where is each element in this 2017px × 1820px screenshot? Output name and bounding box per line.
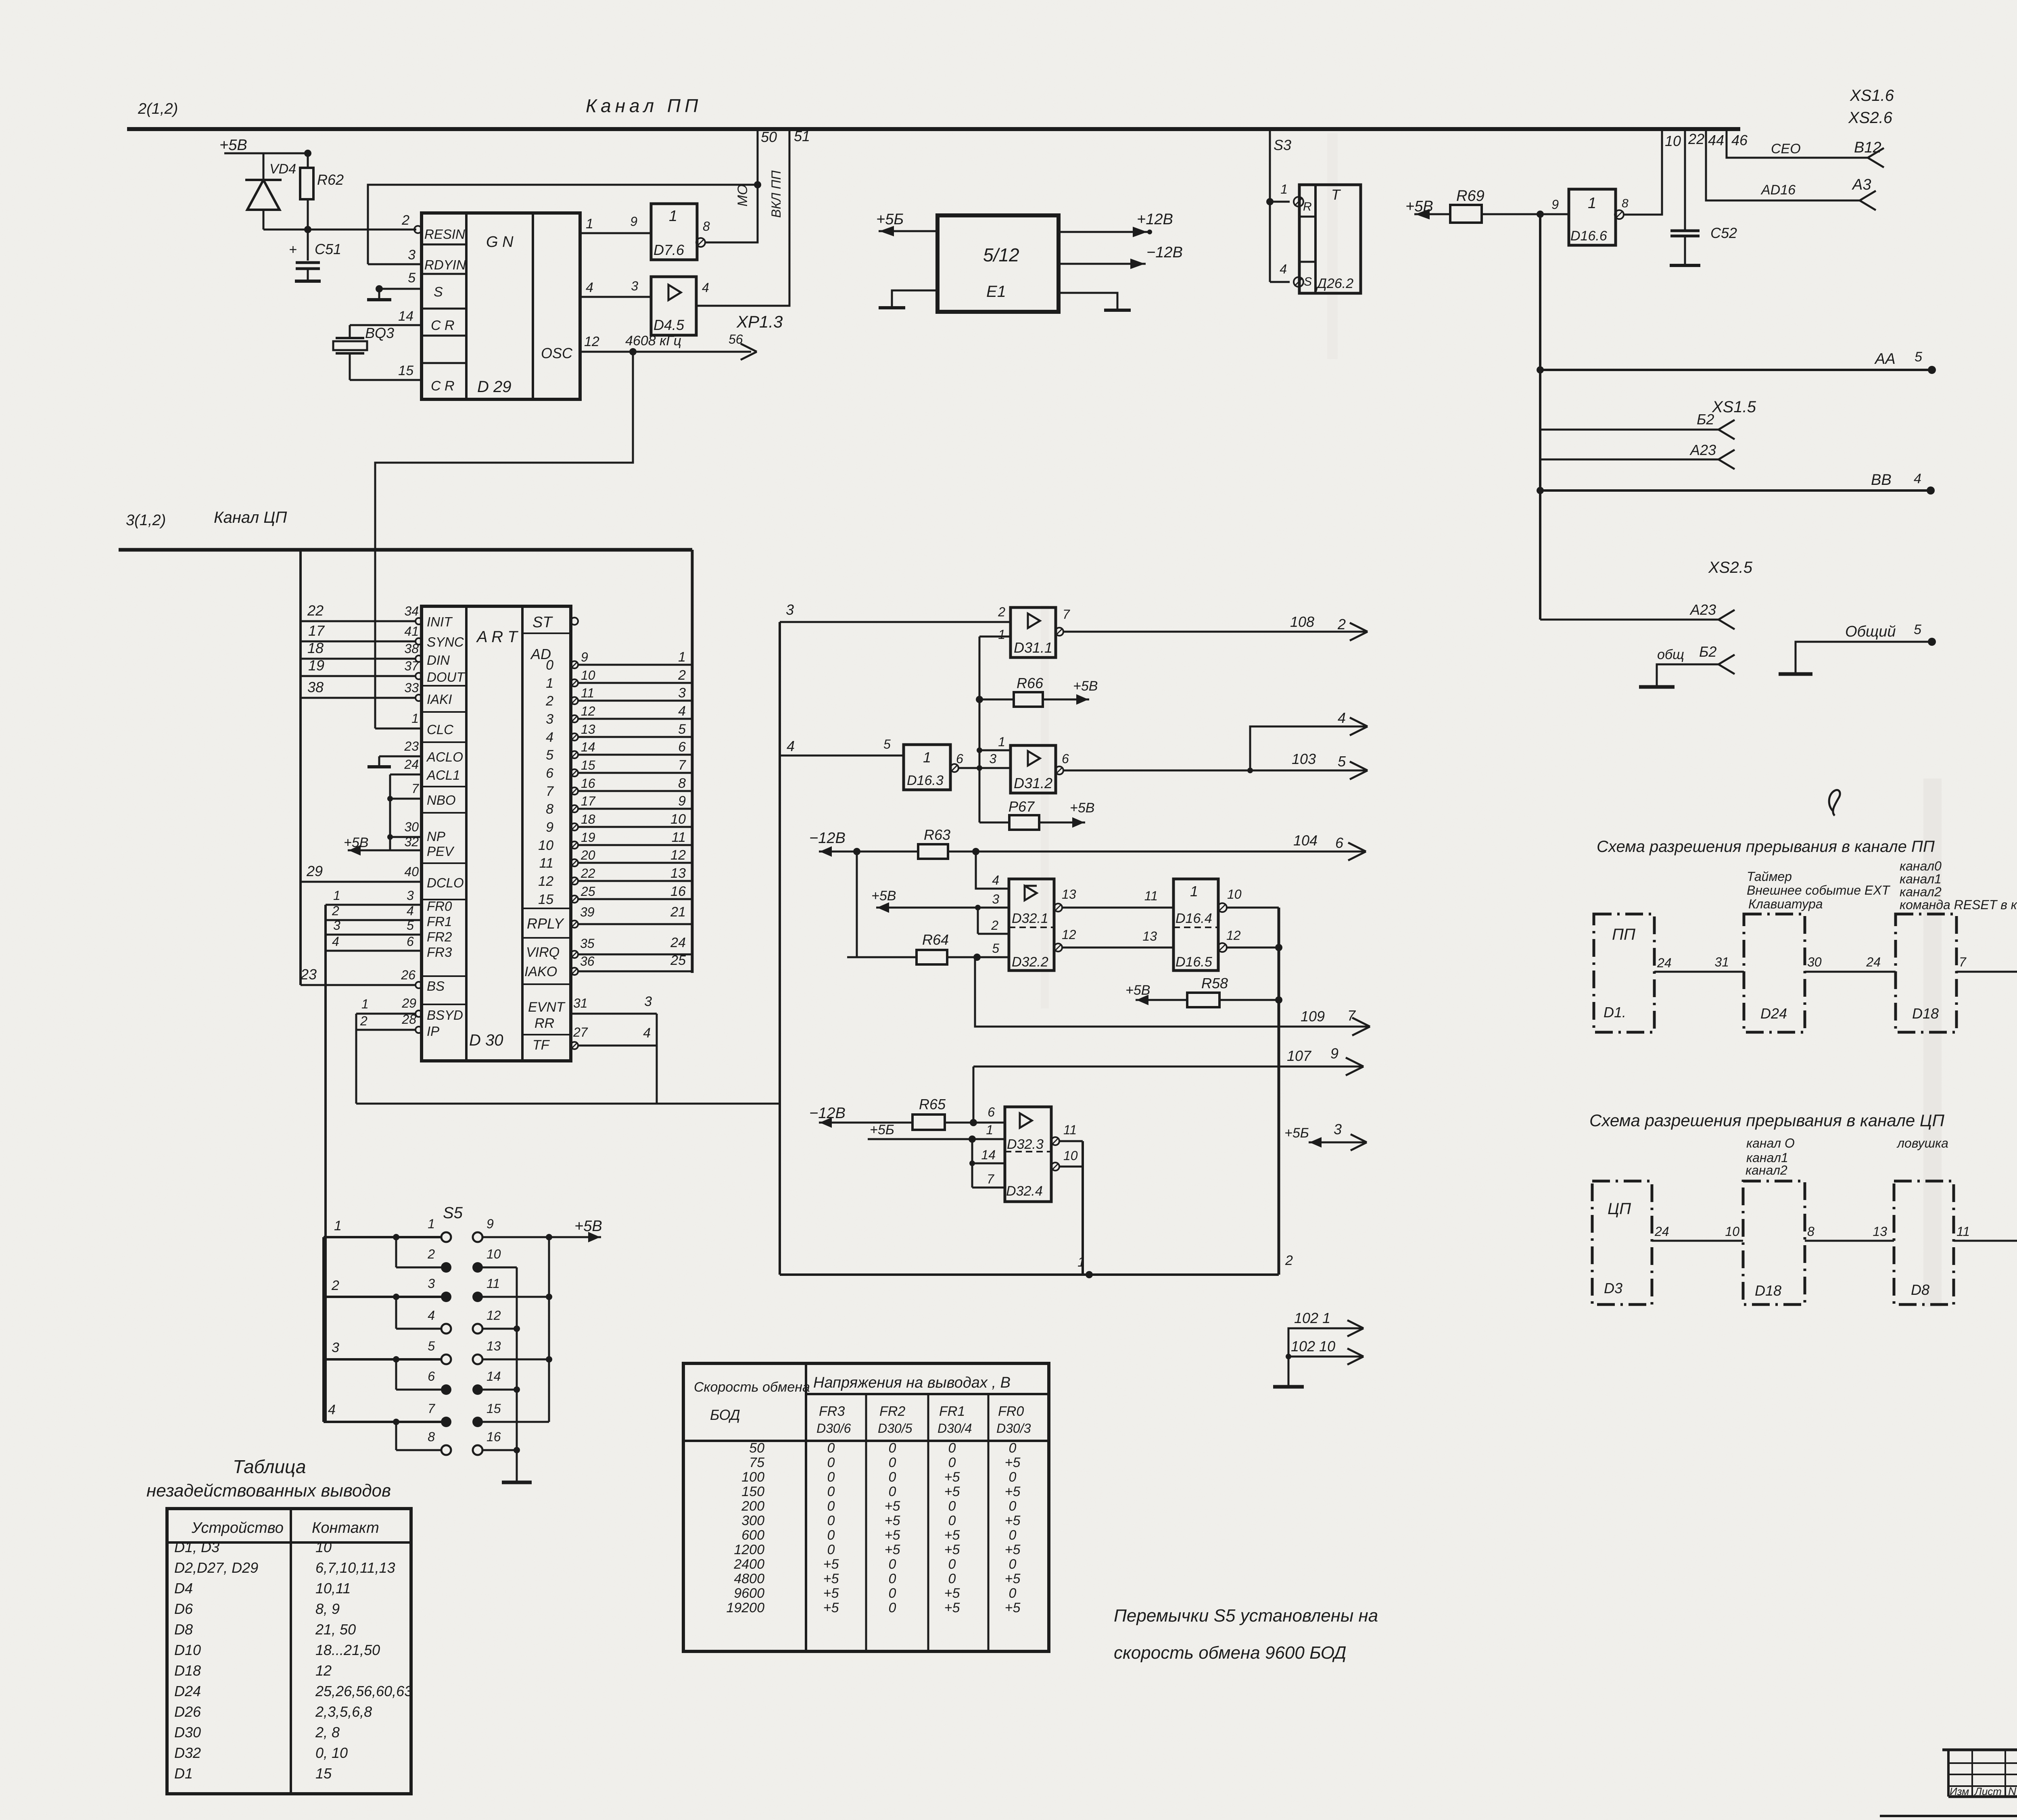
svg-text:13: 13 [581,722,595,737]
svg-text:Общий: Общий [1845,623,1896,640]
svg-text:24: 24 [404,757,419,772]
svg-text:1: 1 [1588,195,1596,212]
svg-text:1: 1 [986,1123,993,1137]
svg-text:DIN: DIN [427,653,450,668]
svg-text:2: 2 [1337,616,1346,632]
svg-text:8: 8 [678,776,686,791]
baud table header divider vertical [805,1363,807,1651]
S5 pads [441,1232,451,1242]
svg-text:NBO: NBO [427,793,456,808]
svg-text:FR1: FR1 [939,1404,965,1419]
branch net 4 arrow [1250,726,1368,770]
svg-text:R: R [1303,200,1312,213]
svg-text:R62: R62 [317,171,344,188]
svg-text:3: 3 [428,1276,435,1291]
svg-text:FR1: FR1 [427,914,452,929]
svg-text:0: 0 [827,1455,835,1470]
svg-text:24: 24 [670,935,686,950]
svg-text:28: 28 [401,1012,416,1027]
svg-text:15: 15 [398,363,413,378]
svg-text:1: 1 [428,1217,435,1231]
pin ST stub [571,618,578,625]
svg-text:6: 6 [988,1105,995,1119]
wire net 3 to D31.1 pin 2 [780,621,1011,623]
output bubble D32.2 pin12 [1054,943,1062,952]
S5 left bus vertical [322,1237,325,1422]
svg-text:13: 13 [670,866,686,881]
svg-text:2: 2 [427,1247,435,1261]
svg-text:2: 2 [991,918,998,933]
svg-text:Р67: Р67 [1008,798,1035,815]
svg-text:DOUT: DOUT [427,670,466,685]
wire ППРИ А5 [1956,971,2017,973]
svg-text:29: 29 [401,996,416,1010]
svg-text:22: 22 [580,866,595,881]
svg-text:10: 10 [315,1539,332,1555]
svg-text:16: 16 [670,884,686,899]
wire D16.6 output to bus pin 10 [1624,129,1662,215]
svg-text:+5: +5 [944,1586,960,1601]
svg-text:+5В: +5В [1125,983,1150,998]
svg-text:BQ3: BQ3 [365,325,394,341]
svg-text:D30/6: D30/6 [816,1421,851,1436]
IC D31.1 [1011,607,1056,657]
svg-text:AD16: AD16 [1760,182,1796,198]
svg-text:9: 9 [678,793,686,809]
svg-text:1: 1 [1077,1254,1085,1270]
left bus vertical Канал ЦП to D30 [299,550,302,985]
svg-text:2,3,5,6,8: 2,3,5,6,8 [315,1703,372,1720]
outputs vertical bus [1278,908,1280,1275]
svg-text:1: 1 [586,216,593,232]
svg-text:1: 1 [669,208,677,225]
svg-text:10: 10 [670,812,686,827]
svg-text:D30/3: D30/3 [996,1421,1031,1436]
IC D32.3 D32.4 [1005,1107,1051,1202]
wire AD1 [571,679,578,687]
squiggle mark [1829,790,1840,816]
svg-text:1: 1 [546,676,553,691]
svg-text:103: 103 [1292,751,1316,767]
svg-text:0: 0 [948,1513,956,1528]
svg-text:+5: +5 [885,1513,900,1528]
svg-text:0: 0 [948,1455,956,1470]
block ЦП D3 [1592,1181,1652,1304]
svg-text:8: 8 [703,219,710,234]
wire DCLO [301,881,422,883]
diode VD4 [263,153,265,180]
svg-text:5/12: 5/12 [983,244,1019,265]
svg-text:12: 12 [1226,928,1241,943]
svg-text:0: 0 [546,657,553,673]
pin 12 OSC output wire 4608 кГц [580,351,751,353]
wire +5В to D32.1 pin3 [876,907,1009,909]
svg-text:C52: C52 [1710,225,1737,241]
svg-text:8: 8 [1622,197,1629,210]
svg-text:C R: C R [431,318,455,333]
svg-text:Схема разрешения прерывания: Схема разрешения прерывания в канале ПП [1597,838,1935,856]
svg-text:0: 0 [889,1440,896,1456]
svg-text:4: 4 [428,1308,435,1323]
wire TF net 4 [571,1042,578,1049]
wire ВВ [1540,489,1931,492]
svg-text:38: 38 [404,641,419,656]
IC D7.6 [651,204,697,260]
svg-text:Таблица: Таблица [233,1456,306,1477]
pin 8 output bubble D16.6 [1615,210,1624,219]
svg-text:4: 4 [643,1025,651,1041]
svg-text:5: 5 [407,918,414,933]
wire А23 of XS1.5 [1540,459,1718,461]
wire D31.1 pin1 [979,636,1011,638]
svg-text:FR2: FR2 [879,1404,905,1419]
wire RR net 3 [571,1013,657,1015]
svg-text:4: 4 [678,703,686,719]
svg-text:8, 9: 8, 9 [315,1601,340,1617]
svg-text:8: 8 [546,801,553,817]
svg-text:+5: +5 [944,1600,960,1615]
wire D31.2 pin1 [979,749,1011,751]
svg-text:D16.5: D16.5 [1176,954,1212,970]
svg-text:9: 9 [1330,1045,1338,1062]
svg-text:канал О: канал О [1746,1136,1795,1150]
outputs vertical to bottom bus [1082,1141,1084,1275]
svg-text:38: 38 [307,679,324,695]
svg-text:+5: +5 [1005,1513,1021,1528]
svg-text:0: 0 [948,1440,956,1456]
svg-text:3: 3 [678,685,686,701]
scan gray streak band 1 [1923,779,1942,1307]
svg-text:SYNC: SYNC [427,634,464,649]
+5В bracket for ACL1 NBO NP PEV [389,774,391,850]
svg-text:6: 6 [546,766,553,781]
svg-text:CEO: CEO [1771,141,1801,157]
svg-text:10: 10 [581,668,595,682]
svg-text:11: 11 [1063,1123,1077,1137]
svg-text:9: 9 [1551,197,1559,212]
svg-text:0: 0 [1009,1440,1017,1456]
svg-text:10: 10 [1725,1224,1739,1239]
svg-text:+5: +5 [1005,1484,1021,1499]
svg-text:D7.6: D7.6 [654,242,685,258]
wire IP [356,1029,416,1031]
svg-text:11: 11 [1956,1224,1970,1239]
IC D31.2 [1011,745,1056,793]
svg-text:RR: RR [535,1016,554,1031]
svg-text:11: 11 [672,830,686,845]
title block left verticals and grid [1947,1750,1950,1797]
svg-text:12: 12 [1062,927,1076,942]
svg-text:3: 3 [644,994,652,1009]
resistor R64 [847,956,917,958]
svg-text:+5В: +5В [871,888,896,904]
svg-text:DCLO: DCLO [427,875,464,890]
svg-text:D26: D26 [174,1703,201,1720]
wire net 109 [975,957,1370,1027]
pin 4 D29 output wire [580,296,651,298]
wire AD5 [571,751,578,758]
svg-text:29: 29 [306,863,323,879]
svg-text:11: 11 [539,856,553,871]
wire SYNC [301,641,416,643]
svg-text:4: 4 [1338,710,1346,726]
svg-text:2: 2 [360,1014,367,1028]
pin 44 wire to AD16 [1706,129,1860,200]
svg-text:А23: А23 [1689,601,1716,618]
IC D30 outline [422,606,571,1061]
svg-text:Канал ЦП: Канал ЦП [214,509,287,526]
wire ACLO with ground [379,756,422,758]
svg-text:41: 41 [404,624,419,639]
svg-text:1: 1 [1190,883,1198,900]
svg-text:D24: D24 [174,1683,201,1699]
wire AD7 [571,787,578,795]
wire AD12 [571,877,578,885]
svg-text:108: 108 [1290,614,1314,630]
svg-text:Б2: Б2 [1697,411,1714,428]
svg-text:S3: S3 [1274,137,1291,153]
svg-text:100: 100 [741,1469,764,1485]
svg-text:0: 0 [948,1557,956,1572]
svg-text:0: 0 [1009,1557,1017,1572]
svg-text:0, 10: 0, 10 [315,1745,348,1761]
svg-text:13: 13 [1062,887,1076,902]
svg-text:R64: R64 [922,931,949,948]
wire D32.3 output [1059,1140,1083,1142]
svg-text:150: 150 [741,1484,764,1499]
wire D32.4 pin14 [972,1163,1005,1165]
svg-text:D2,D27, D29: D2,D27, D29 [174,1559,258,1576]
svg-text:CLC: CLC [427,722,454,737]
svg-text:D24: D24 [1760,1005,1787,1022]
svg-text:+5В: +5В [219,137,247,154]
svg-text:25: 25 [580,884,595,899]
svg-text:50: 50 [749,1440,764,1456]
wire AD2 [571,697,578,704]
svg-text:5: 5 [428,1339,435,1353]
pin 2 RESIN [414,226,422,233]
svg-text:5: 5 [992,941,999,956]
wire ACL1 [390,774,422,776]
svg-text:7: 7 [1347,1007,1356,1024]
AD bus vertical [691,550,694,973]
svg-text:7: 7 [678,758,686,773]
svg-text:PEV: PEV [427,844,455,859]
wire D32.2 pin2 [978,933,1009,935]
svg-text:25: 25 [670,953,686,968]
S5 vertical B [548,1237,550,1422]
svg-text:22: 22 [1688,131,1704,147]
svg-text:0: 0 [1009,1469,1017,1485]
svg-text:0: 0 [889,1469,896,1485]
IC D4.5 buffer [651,277,696,335]
wire FR2 [326,934,422,936]
output bubble D32.4 pin10 [1051,1163,1059,1171]
svg-text:+12В: +12В [1137,211,1173,228]
wire NBO [390,798,422,800]
wire AD10 [571,841,578,849]
wire chain ПП second segment [1805,971,1896,973]
svg-text:D32.1: D32.1 [1012,911,1048,926]
svg-text:E1: E1 [986,283,1006,301]
wire AD9 [571,823,578,831]
svg-text:G N: G N [486,234,514,250]
svg-text:11: 11 [581,686,594,700]
svg-text:14: 14 [487,1369,501,1384]
svg-text:2: 2 [545,693,553,709]
wire INIT [301,620,416,622]
svg-text:ловушка: ловушка [1896,1136,1948,1150]
svg-text:команда RESET в канале ЦП: команда RESET в канале ЦП [1900,897,2017,912]
svg-text:6: 6 [428,1369,435,1384]
wire net 104 [948,851,1366,853]
svg-text:FR0: FR0 [998,1404,1024,1419]
S5 wire row7 net 4 [324,1421,442,1423]
svg-text:2, 8: 2, 8 [315,1724,340,1741]
svg-text:EVNT: EVNT [528,1000,566,1015]
svg-text:+5: +5 [1005,1455,1021,1470]
svg-text:8: 8 [428,1430,435,1444]
svg-text:44: 44 [1708,132,1724,148]
svg-text:ВВ: ВВ [1871,472,1892,488]
svg-text:XS1.6: XS1.6 [1850,87,1894,104]
wire R58 to vertical [1219,999,1279,1001]
svg-text:Напряжения на выводах , В: Напряжения на выводах , В [813,1374,1011,1391]
wire bus Канал ПП [127,127,1740,131]
svg-text:0: 0 [1009,1586,1017,1601]
block D18 in ПП chain [1896,914,1956,1032]
wire RPLY [571,920,578,928]
svg-text:31: 31 [1714,955,1729,969]
svg-text:12: 12 [670,847,686,863]
svg-text:0: 0 [889,1455,896,1470]
svg-text:7: 7 [1063,607,1070,622]
svg-text:9600: 9600 [734,1586,764,1601]
svg-text:3: 3 [631,279,638,293]
resistor R58 [1187,993,1219,1007]
IC D29 outline [422,213,580,399]
svg-text:37: 37 [404,659,419,673]
svg-text:0: 0 [827,1499,835,1514]
svg-text:+5Б: +5Б [870,1122,894,1137]
svg-text:канал0: канал0 [1900,859,1942,873]
svg-text:Перемычки S5 установлены на: Перемычки S5 установлены на [1114,1606,1378,1626]
svg-text:D18: D18 [1912,1005,1939,1022]
svg-text:1200: 1200 [734,1542,764,1557]
svg-text:D 29: D 29 [477,378,512,396]
svg-text:общ: общ [1657,647,1684,662]
svg-text:+5: +5 [885,1542,900,1557]
wire D16.4 output to vertical [1227,907,1279,909]
E1 right ground [1059,293,1117,309]
wire AD4 [571,733,578,741]
svg-text:TF: TF [532,1037,550,1053]
output bubble D31.2 pin 6 [1055,766,1063,774]
wire АА [1540,369,1932,371]
svg-text:6: 6 [956,751,963,766]
block D18 in ЦП chain [1743,1181,1805,1304]
wire Б2 of XS1.5 [1540,429,1718,431]
pin 15 CR wire [350,379,422,381]
IC D32.1 D32.2 [1009,879,1054,971]
svg-text:10: 10 [1665,133,1681,149]
svg-text:3: 3 [992,892,999,906]
baud table header underline [806,1393,1049,1395]
BSYD IP bracket to return line [355,1014,357,1104]
svg-text:2: 2 [331,1278,339,1293]
wire D32.1 to D16.4 pin 11 [1062,907,1173,909]
svg-text:D18: D18 [174,1662,201,1679]
svg-text:4: 4 [546,730,553,745]
pin 46 wire to CEO [1727,129,1868,158]
svg-text:D32.4: D32.4 [1006,1183,1043,1199]
svg-text:RESIN: RESIN [424,227,465,242]
wire AD6 [571,769,578,776]
svg-text:22: 22 [307,602,324,619]
svg-text:S: S [434,284,443,300]
svg-text:7: 7 [987,1172,994,1186]
pin 14 CR wire [350,324,422,326]
wire AD11 [571,859,578,866]
wire chain ЦП segment 2 [1805,1240,1894,1242]
svg-text:Канал ПП: Канал ПП [586,95,702,116]
RR TF vertical to return line [656,1014,658,1104]
wire R64 to D32.2 pin5 [947,956,1009,958]
svg-text:35: 35 [580,936,595,951]
block D8 [1894,1181,1954,1304]
svg-text:R65: R65 [919,1096,946,1112]
vertical −12В branch to R64 [847,852,857,957]
svg-text:+5В: +5В [1070,800,1094,816]
svg-text:незадействованных выводов: незадействованных выводов [146,1481,391,1501]
wire net 4 to D16.3 pin 5 [780,755,904,757]
svg-text:18: 18 [581,812,595,827]
svg-text:12: 12 [487,1308,501,1323]
svg-text:NP: NP [427,829,445,844]
svg-text:17: 17 [581,794,596,808]
svg-text:OSC: OSC [541,345,573,361]
svg-text:0: 0 [889,1571,896,1586]
svg-text:D8: D8 [1911,1282,1929,1298]
svg-text:Схема разрешения прерывания: Схема разрешения прерывания в канале ЦП [1589,1111,1944,1130]
svg-text:12: 12 [315,1662,332,1679]
svg-text:50: 50 [761,129,777,145]
wire PEV [390,849,422,852]
net ВКЛ ПП wire pin 51 [696,129,789,306]
wire net 103 [1063,770,1368,772]
svg-text:51: 51 [794,128,810,144]
svg-text:24: 24 [1654,1224,1669,1239]
svg-text:13: 13 [1873,1224,1887,1239]
wire VIRQ [571,951,578,958]
svg-text:+5В: +5В [1073,678,1098,694]
svg-text:D1: D1 [174,1765,193,1782]
svg-text:R69: R69 [1456,188,1485,205]
svg-text:3: 3 [546,712,553,727]
svg-text:4: 4 [992,873,999,887]
svg-text:10: 10 [487,1247,501,1261]
svg-text:1: 1 [998,735,1005,749]
svg-text:5: 5 [546,747,553,763]
svg-text:D6: D6 [174,1601,193,1617]
pin 4 S input circle [1294,277,1303,287]
wire 4608 кГц to CLC [375,352,633,728]
output bubble D32.1 pin13 [1054,904,1062,912]
svg-text:7: 7 [411,781,419,796]
svg-text:IAKI: IAKI [427,692,452,707]
wire AD15 [571,895,578,903]
svg-text:3: 3 [408,247,416,263]
